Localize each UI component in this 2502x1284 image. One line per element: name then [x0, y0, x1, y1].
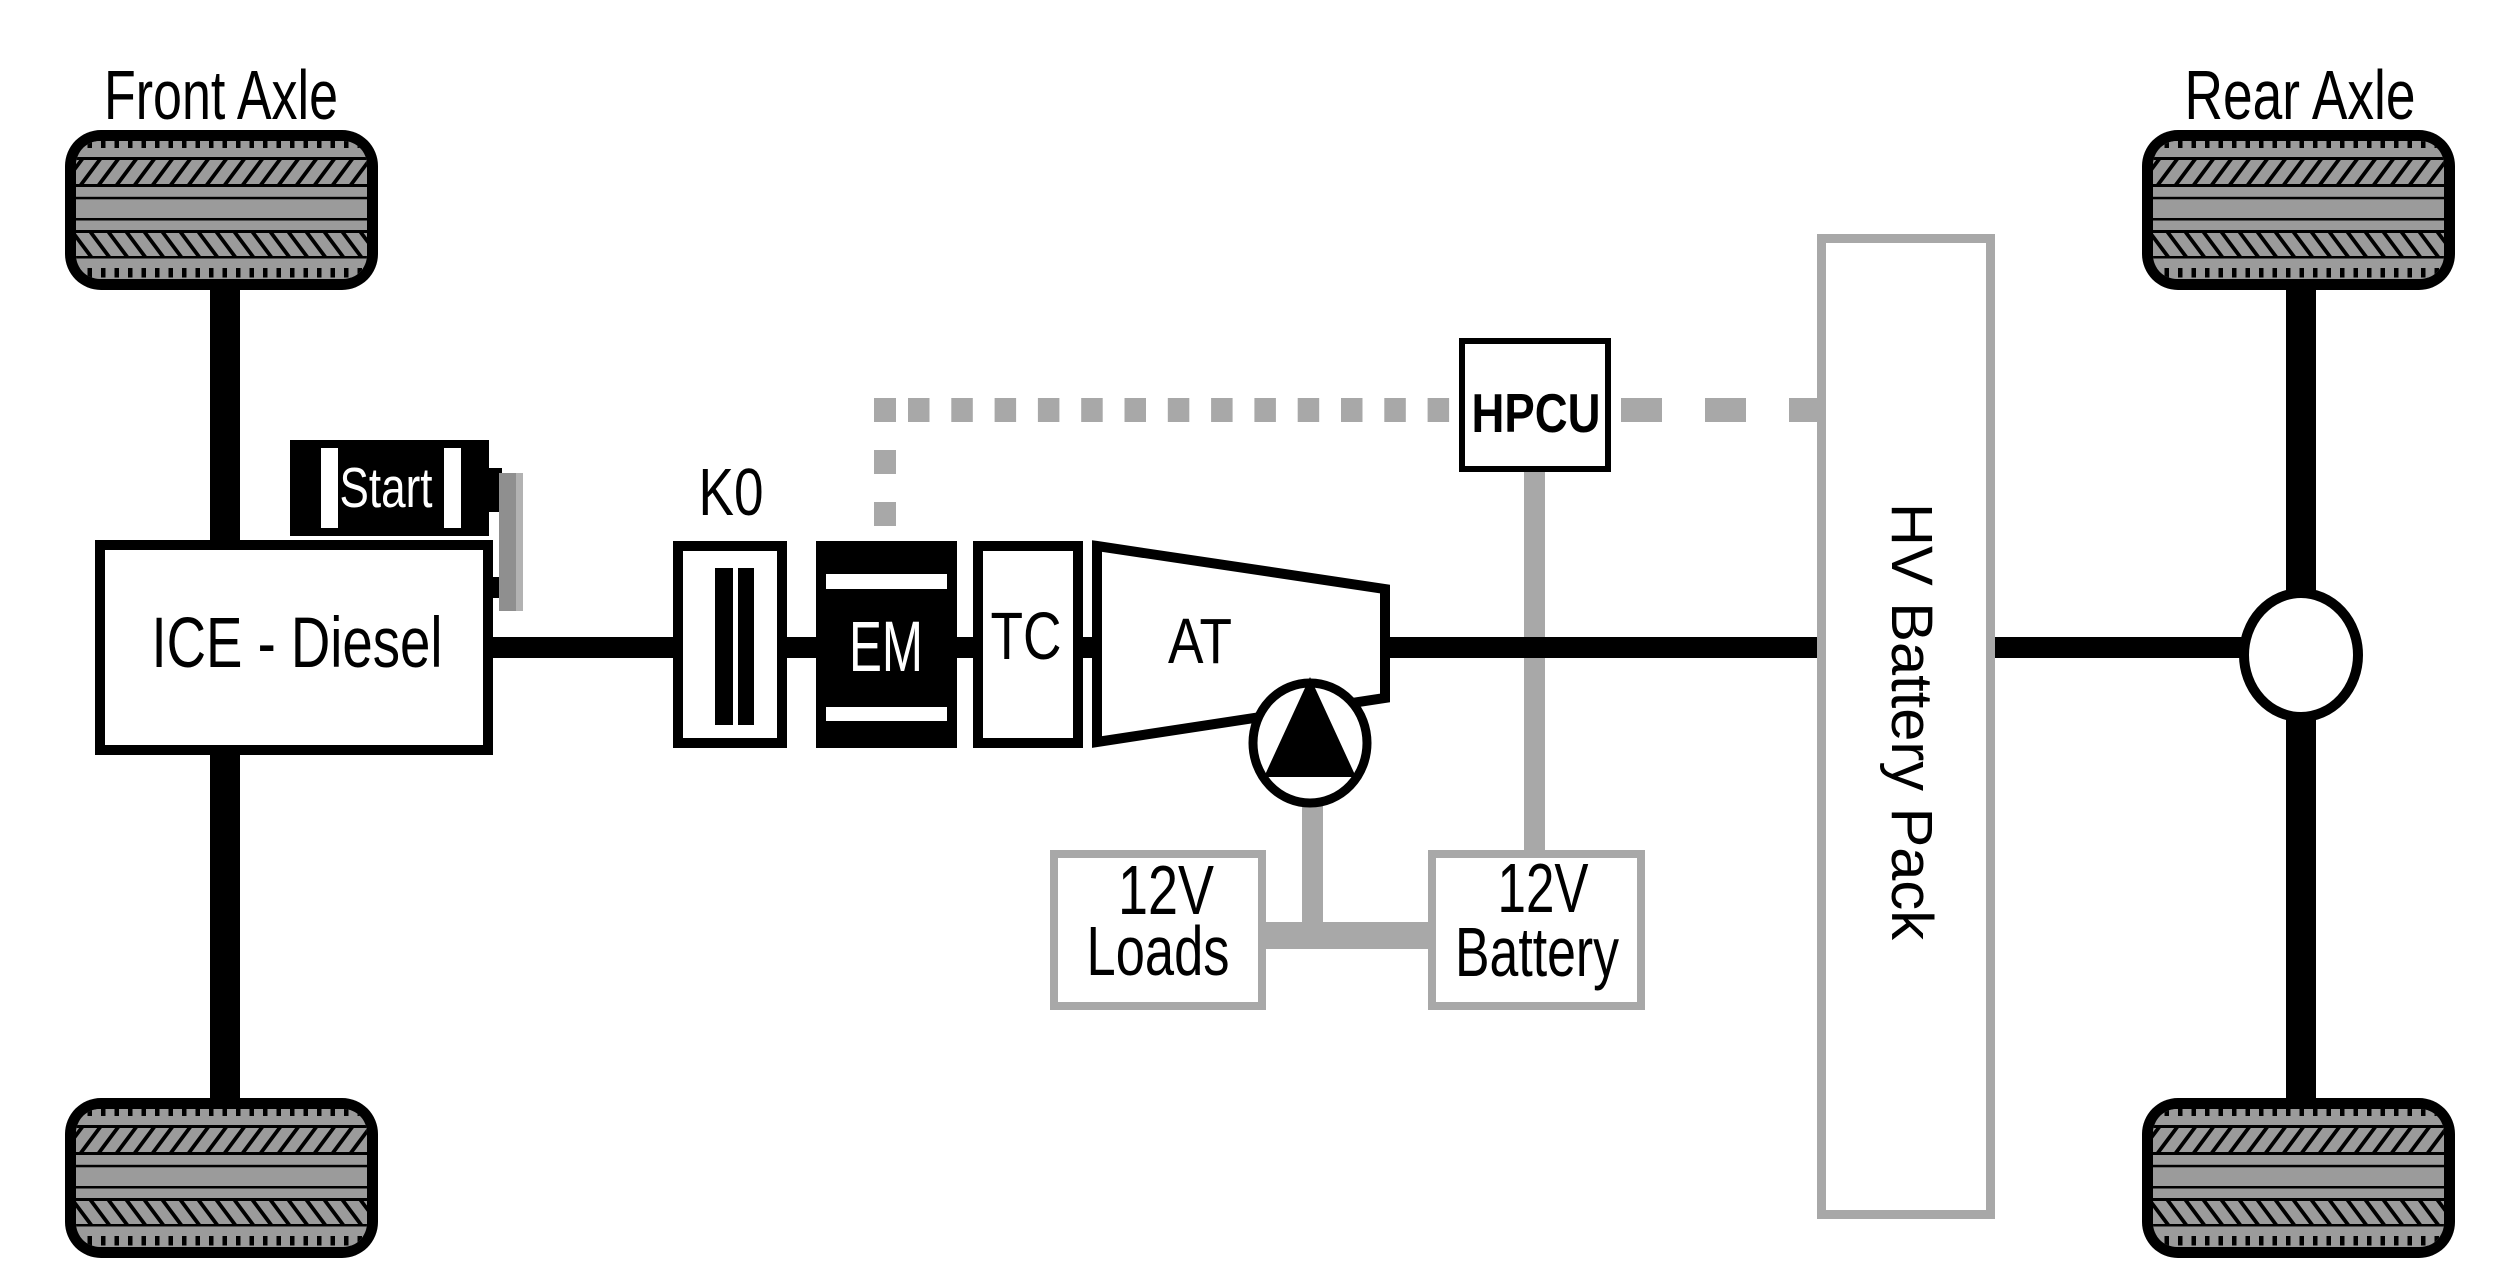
rear axle shaft: [2286, 280, 2316, 1110]
12V Battery box: [1432, 849, 1641, 1006]
rear differential circle: [2244, 593, 2358, 717]
svg-text:Start: Start: [340, 456, 433, 520]
ICE - Diesel engine box: [100, 545, 488, 750]
clutch plate right: [738, 568, 754, 725]
tire rear top: [2142, 130, 2455, 290]
svg-text:Battery: Battery: [1455, 913, 1619, 991]
svg-text:Rear Axle: Rear Axle: [2185, 56, 2416, 134]
wire: gray line HPCU to 12V Battery: [1524, 472, 1545, 853]
clutch plate left: [715, 568, 733, 725]
TC torque converter box: [978, 546, 1078, 743]
svg-text:Front Axle: Front Axle: [104, 56, 338, 134]
EM motor box: [816, 541, 957, 748]
svg-text:AT: AT: [1168, 605, 1232, 677]
starter terminal tab lower: [485, 577, 502, 598]
wire: gray dotted signal line EM to HPCU (vertical dots): [874, 398, 896, 526]
tire rear bottom: [2142, 1098, 2455, 1258]
svg-text:TC: TC: [991, 599, 1062, 674]
HPCU box: [1462, 341, 1608, 469]
starter terminal tab upper: [489, 468, 502, 512]
main drive shaft AT to rear differential: [1385, 637, 2245, 658]
tire front bottom: [65, 1098, 378, 1258]
HV Battery Pack box: [1822, 239, 1991, 1215]
svg-text:EM: EM: [849, 608, 923, 687]
svg-text:ICE - Diesel: ICE - Diesel: [152, 604, 443, 683]
main drive shaft TC to AT: [1078, 637, 1098, 658]
wire: gray dashed HV link HPCU to HV Battery Pack: [1621, 398, 1817, 422]
wire: gray line pump to 12V node: [1302, 800, 1323, 949]
svg-text:K0: K0: [699, 455, 764, 530]
starter battery Start box: [290, 440, 489, 536]
oil pump circle with triangle: [1253, 677, 1367, 803]
12V Loads box: [1054, 851, 1262, 1006]
main drive shaft ICE to K0 clutch: [480, 637, 717, 658]
tire front top: [65, 130, 378, 290]
svg-text:Loads: Loads: [1087, 912, 1230, 990]
wire: gray line 12V Loads to 12V Battery: [1266, 922, 1430, 949]
svg-text:HV Battery Pack: HV Battery Pack: [1879, 503, 1944, 941]
K0 clutch box: [678, 455, 782, 743]
AT automatic transmission trapezoid: [1097, 546, 1385, 742]
wire: gray dotted signal line EM to HPCU (horizontal dots): [908, 398, 1449, 422]
starter link gray bar: [499, 473, 522, 611]
svg-text:HPCU: HPCU: [1472, 382, 1601, 444]
main drive shaft K0 to TC: [753, 637, 978, 658]
front axle shaft: [210, 280, 240, 1110]
